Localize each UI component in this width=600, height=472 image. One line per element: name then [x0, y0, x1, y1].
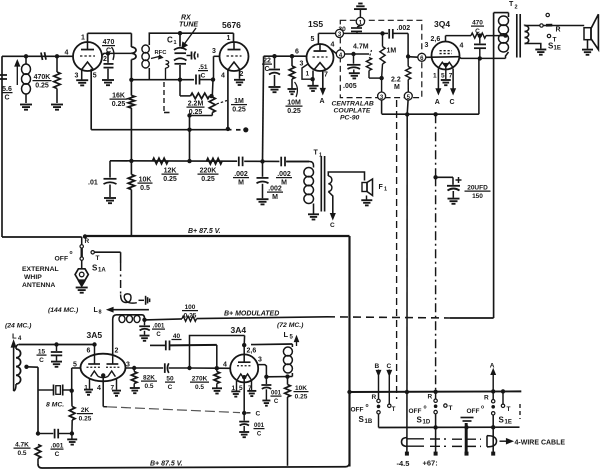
terminal battery: [465, 452, 469, 456]
wire 3Q4 screen stem: [445, 36, 447, 42]
svg-text:.002: .002: [397, 25, 411, 32]
node junction 22 cap: [272, 54, 276, 58]
svg-text:270K: 270K: [192, 376, 208, 383]
svg-text:3Q4: 3Q4: [434, 19, 450, 29]
wire long vertical B+ modulated: [493, 13, 495, 318]
svg-text:0.5: 0.5: [17, 450, 26, 457]
wire 1S5 pin4 to couplate 4: [330, 49, 336, 54]
coil L1 antenna: [25, 56, 27, 64]
node junction above terminal 3: [379, 76, 383, 80]
svg-text:(72 MC.): (72 MC.): [277, 322, 304, 329]
wire grid drive horizontal: [150, 344, 166, 346]
wire heavy vertical mid: [348, 236, 350, 467]
wire V2 plate stem: [233, 33, 235, 42]
wire to 3A4 grid: [190, 367, 217, 369]
node junction 1S5 cathode: [310, 77, 314, 81]
node junction 3A5 filament tap: [101, 373, 105, 377]
tube 3A5 dual triode: [81, 354, 126, 382]
wire 3Q4 pin7 C: [452, 69, 454, 91]
svg-text:OFF: OFF: [55, 256, 69, 263]
svg-text:4: 4: [97, 385, 101, 392]
arrow L8 pickup: [108, 308, 114, 312]
node junction bottom x435: [433, 425, 437, 429]
node junction 1M return: [187, 113, 191, 117]
svg-text:M: M: [238, 179, 244, 186]
ground T2 secondary: [535, 49, 546, 51]
transformer T2 primary: [508, 13, 510, 17]
svg-text:1: 1: [384, 187, 387, 193]
wire B to S1B: [378, 376, 380, 400]
ground above terminal 1: [358, 3, 362, 5]
svg-text:T: T: [449, 405, 453, 412]
wire detector line y=130: [91, 129, 231, 131]
svg-text:100: 100: [185, 304, 196, 311]
svg-text:0.5: 0.5: [140, 185, 150, 192]
svg-text:RFC: RFC: [155, 50, 168, 56]
svg-text:(24 MC.): (24 MC.): [5, 323, 32, 330]
wire drive down to grid: [216, 345, 218, 368]
wire T S1E stem: [502, 391, 504, 404]
wire switch common bottom: [379, 426, 520, 428]
sideways ground antenna pickup: [139, 299, 145, 301]
wire B+ modulated solid: [197, 317, 328, 319]
ground 3Q4 filament: [441, 79, 451, 81]
svg-text:4.7K: 4.7K: [15, 442, 29, 449]
node junction 3A4 filament tap: [242, 375, 246, 379]
resistor 10K osc: [287, 377, 289, 385]
svg-text:50: 50: [166, 376, 174, 383]
svg-text:82K: 82K: [143, 375, 155, 382]
node junction antenna coil: [24, 54, 28, 58]
svg-text:A: A: [490, 363, 495, 370]
label 1M/0.25 with leader: [217, 101, 228, 105]
svg-text:T: T: [314, 150, 319, 157]
svg-text:4: 4: [460, 43, 464, 50]
wire 3Q4 plate line through: [426, 56, 459, 59]
svg-text:M: M: [394, 84, 400, 91]
cable wires dashes bottom: [408, 445, 425, 447]
ground 82K: [130, 387, 140, 389]
wire B+ 87.5V bus: [84, 235, 350, 237]
wire T2 secondary top to switch: [525, 25, 540, 27]
tank coil RFC: [148, 33, 150, 45]
svg-text:4: 4: [223, 362, 227, 369]
tuning arrow L5: [296, 340, 298, 347]
svg-text:T: T: [96, 255, 100, 262]
ground 10M: [288, 88, 297, 90]
svg-text:2,6: 2,6: [431, 36, 441, 43]
ground 2K: [71, 434, 73, 439]
capacitor .001/C 3A4: [265, 377, 267, 384]
svg-text:5: 5: [441, 73, 445, 80]
node junction 1M top: [380, 31, 384, 35]
wire 1S5 pin5 to couplate 3: [317, 33, 319, 44]
wire T1 secondary bottom C: [328, 192, 333, 215]
capacitor .51/C: [195, 75, 197, 85]
svg-text:o: o: [70, 250, 73, 256]
tube 3A4: [230, 354, 258, 382]
wire grid return to RC bus: [189, 116, 191, 162]
terminal 1 couplate: [356, 17, 364, 25]
svg-text:.01: .01: [88, 180, 98, 187]
node junction 470K: [55, 54, 59, 58]
wire to terminal 3 bottom: [381, 78, 383, 92]
cable wires dashes top: [408, 438, 425, 440]
capacitor screen bypass: [479, 36, 481, 44]
filament 3Q4: [439, 62, 453, 67]
arrow B down: [378, 370, 380, 372]
arrow RX tune: [184, 28, 196, 45]
svg-text:16K: 16K: [112, 93, 125, 100]
node junction plate wire: [478, 56, 482, 60]
node junction C line: [242, 411, 246, 415]
wire terminal5 supply vertical: [406, 100, 409, 115]
wire tank bottom bus: [131, 79, 194, 81]
coil L4: [16, 345, 19, 350]
svg-text:EXTERNAL: EXTERNAL: [22, 266, 59, 273]
wire grid top line: [19, 344, 95, 346]
wire plate node to terminal 6: [408, 56, 418, 59]
svg-text:1: 1: [306, 71, 310, 78]
svg-text:5: 5: [93, 73, 97, 80]
resistor 470K: [56, 56, 58, 72]
svg-text:470: 470: [472, 20, 483, 27]
node junction 15C: [54, 342, 58, 346]
svg-text:C: C: [106, 47, 111, 54]
svg-text:PC-90: PC-90: [340, 115, 359, 122]
wire antenna left vertical: [1, 56, 3, 237]
wire V1 pin3 to ground: [81, 69, 83, 80]
svg-text:4: 4: [65, 50, 69, 57]
ground 470pF: [102, 79, 114, 81]
svg-text:0.25: 0.25: [232, 106, 246, 113]
plates 3A5: [88, 363, 100, 365]
terminal cable 4: [491, 452, 495, 456]
svg-text:T: T: [507, 406, 511, 413]
wire 1M bottom: [211, 113, 213, 116]
cable lacing right: [487, 436, 497, 447]
tuning arrow L1: [16, 64, 18, 85]
wire 3A4 pin1 stem: [236, 381, 238, 391]
wire A down to S1E: [492, 374, 494, 399]
wire V1 pin2 to choke line: [102, 53, 132, 55]
ground .01: [104, 197, 116, 199]
ground V2 pin2: [234, 79, 245, 81]
switch S1E arm: [543, 25, 553, 27]
ground .001 3A4: [262, 400, 270, 402]
svg-text:1M: 1M: [387, 48, 397, 55]
node junction 10M: [290, 54, 294, 58]
wire B+ modulated dashed: [327, 317, 450, 318]
node junction feed x503: [501, 389, 505, 393]
node junction 2K bottom: [70, 431, 74, 435]
wire 1S5 grid line: [264, 55, 307, 57]
contact T S1A: [91, 251, 94, 254]
ground 22/C: [269, 86, 281, 88]
svg-text:8: 8: [99, 310, 102, 316]
contact lower S1A: [80, 257, 83, 260]
filament center tap 3Q4: [444, 64, 447, 68]
svg-text:C: C: [156, 332, 161, 338]
pigtail loop to L8: [121, 294, 137, 303]
svg-text:0.25: 0.25: [201, 176, 215, 183]
svg-text:C: C: [256, 411, 261, 418]
svg-text:1: 1: [433, 73, 437, 80]
terminal -4.5: [405, 452, 409, 456]
svg-text:.002: .002: [277, 171, 291, 178]
svg-text:5.6: 5.6: [2, 86, 12, 93]
wire RC bus y=161: [110, 160, 194, 162]
svg-text:C: C: [4, 94, 9, 101]
crystal 8MC: [38, 389, 54, 391]
wire antenna input horizontal y=56: [2, 55, 73, 57]
wire 3A5 pin6 stem: [94, 345, 96, 365]
svg-text:1D: 1D: [423, 420, 431, 426]
arrow and label C filament: [247, 412, 251, 414]
svg-text:10K: 10K: [295, 385, 307, 392]
resistor 2.2M couplate: [407, 57, 409, 67]
svg-text:R: R: [428, 394, 433, 401]
node junction feed x407: [405, 390, 409, 394]
svg-text:C: C: [387, 363, 392, 370]
terminal +67: [434, 452, 438, 456]
node junction bottom x493: [491, 425, 495, 429]
wire V2 pin4 down to detector line: [227, 70, 229, 129]
node junction L5 bottom: [285, 374, 289, 378]
label 10M/0.25 with leader: [295, 82, 298, 97]
svg-text:C: C: [257, 431, 262, 437]
capacitor 470/C bypass: [107, 53, 109, 62]
node junction bus x262: [260, 159, 264, 163]
resistor 1M: [209, 97, 215, 113]
resistor 82K: [133, 368, 135, 372]
svg-text:C: C: [264, 66, 269, 73]
svg-text:8 MC.: 8 MC.: [46, 402, 64, 409]
svg-text:470K: 470K: [34, 74, 51, 81]
wire 3A4 pin7 stem: [251, 380, 253, 390]
svg-text:1B: 1B: [365, 419, 373, 425]
wire 22/C riser: [263, 56, 264, 161]
contact R S1E: [546, 13, 549, 16]
wire V2 grid pin3: [214, 55, 220, 57]
switch S1E bottom contacts: [492, 400, 495, 403]
ground 20uFD: [448, 198, 460, 200]
svg-text:OFF: OFF: [409, 408, 422, 415]
wire C to S1B T contact: [388, 376, 390, 405]
resistor 2K: [71, 391, 73, 407]
wire 3A5 pin7 stem: [116, 379, 118, 390]
svg-text:1: 1: [81, 35, 85, 42]
svg-text:3: 3: [75, 73, 79, 80]
wire .002 to plate node: [393, 32, 408, 34]
ground 15/C: [51, 361, 62, 363]
node junction grid V2: [211, 77, 215, 81]
capacitor 40: [165, 341, 167, 351]
svg-text:0.25: 0.25: [184, 312, 197, 319]
capacitor .002/M series first: [238, 157, 240, 167]
node junction feed x435: [433, 390, 437, 394]
capacitor .002 couplate: [388, 29, 390, 39]
ground .001 L8: [140, 335, 150, 337]
ground 270K: [212, 387, 222, 389]
terminal 5 couplate bottom: [404, 92, 412, 100]
wire antenna feed to S1A: [2, 236, 82, 238]
svg-text:4-WIRE CABLE: 4-WIRE CABLE: [515, 440, 566, 447]
wire T2 secondary bottom to ground: [525, 44, 541, 49]
ground 3A5 pin7: [112, 390, 121, 392]
cable end dashes: [519, 404, 521, 419]
variable capacitor C1: [179, 33, 181, 46]
svg-text:12K: 12K: [164, 168, 177, 175]
svg-text:T: T: [509, 1, 514, 8]
node junction supply cross: [405, 112, 409, 116]
svg-text:1: 1: [174, 40, 177, 46]
speaker driver: [584, 28, 591, 40]
wire 1S5 pin7 filament A: [322, 71, 324, 90]
terminal 6 couplate: [418, 53, 426, 61]
svg-text:7: 7: [324, 72, 328, 79]
node junction feedback net: [187, 366, 191, 370]
transformer T2 core: [516, 14, 518, 58]
capacitor series on antenna wire: [41, 53, 43, 61]
tube V2 5676: [220, 42, 249, 71]
wire couplate3 feed down: [381, 100, 383, 114]
ground 3A4 pin1: [231, 390, 240, 392]
wire S1D arm down: [435, 414, 437, 454]
node junction C1 bottom: [178, 78, 182, 82]
node junction screen bypass: [478, 33, 482, 37]
ground speaker: [582, 49, 593, 51]
svg-text:3: 3: [300, 61, 304, 68]
svg-text:5676: 5676: [222, 20, 241, 30]
dashed tuning link from tank: [163, 82, 165, 113]
svg-text:+67:: +67:: [423, 459, 438, 468]
plus sign 20uFD: [456, 179, 462, 181]
node junction x189 RC bus: [187, 159, 191, 163]
node junction feed x493: [491, 389, 495, 393]
wire S1A T to transmitter: [94, 251, 120, 253]
wire grid network vertical: [211, 80, 214, 97]
wire terminal4 grid line: [345, 53, 369, 55]
svg-text:R: R: [372, 394, 377, 401]
node junction feed x350: [347, 390, 351, 394]
wire feedback into plate node: [243, 336, 245, 346]
capacitor 15/C: [56, 345, 58, 352]
wire dash-dot T feed: [120, 263, 122, 295]
antenna jack: [75, 269, 88, 280]
svg-text:B+ 87.5 V.: B+ 87.5 V.: [150, 461, 183, 468]
svg-text:C: C: [168, 384, 173, 391]
grid dashes 3Q4: [440, 50, 453, 52]
svg-text:OFF: OFF: [467, 408, 480, 415]
node junction C1 top: [178, 31, 182, 35]
capacitor .01 bypass: [109, 161, 111, 178]
tube V1 RF amplifier: [73, 42, 102, 71]
svg-text:TUNE: TUNE: [179, 22, 198, 29]
ground F1: [361, 199, 372, 201]
svg-text:M: M: [281, 179, 287, 186]
svg-text:L: L: [12, 332, 17, 341]
svg-text:RX: RX: [181, 15, 192, 22]
wire S1E arm down: [492, 415, 494, 454]
capacitor .002/M shunt: [262, 161, 264, 176]
filaments 3A5: [91, 371, 98, 377]
node junction bottom x466: [464, 425, 468, 429]
capacitor trimmer beside C1: [187, 55, 191, 57]
svg-text:20UFD: 20UFD: [467, 185, 488, 192]
ground 3A5 pin1: [84, 389, 93, 391]
svg-text:COUPLATE: COUPLATE: [334, 108, 371, 115]
node junction .005: [351, 52, 355, 56]
svg-text:1: 1: [227, 35, 231, 42]
wire T1 secondary top to F1: [328, 172, 364, 181]
ground .002 shunt: [257, 198, 269, 200]
resistor 1M couplate: [382, 33, 384, 46]
svg-text:2: 2: [115, 348, 119, 355]
svg-text:.001: .001: [51, 443, 64, 450]
arrow C down: [388, 370, 390, 372]
svg-text:A: A: [320, 98, 325, 105]
wire 1S5 pin3 return: [302, 64, 312, 79]
svg-text:o: o: [424, 405, 427, 411]
wire V1 plate to top rail: [87, 33, 89, 42]
node junction 10K top: [129, 159, 133, 163]
capacitor 5.6/C on antenna vertical: [0, 74, 7, 76]
svg-text:4: 4: [221, 73, 225, 80]
svg-text:B+ 87.5 V.: B+ 87.5 V.: [188, 228, 221, 235]
svg-text:4.7M: 4.7M: [353, 44, 369, 51]
slug arrow and small coil: [151, 57, 159, 59]
switch S1B contacts: [377, 399, 380, 402]
svg-text:10M: 10M: [287, 100, 301, 107]
svg-text:3: 3: [212, 48, 216, 55]
terminal 3 couplate bottom: [378, 92, 386, 100]
capacitor .001/C feedback: [38, 433, 53, 435]
wire S1A stem: [81, 237, 83, 245]
transformer T1 primary: [304, 168, 314, 177]
wire B+ modulated right: [450, 317, 494, 319]
wire C1 bottom to 2.2M: [179, 80, 181, 96]
node junction 2.2M right: [209, 94, 213, 98]
svg-text:OFF: OFF: [351, 407, 364, 414]
svg-text:R: R: [484, 395, 489, 402]
svg-text:1M: 1M: [234, 98, 244, 105]
wire dash-dot supply 67V: [435, 114, 437, 177]
coil L8: [117, 315, 145, 318]
svg-text:C: C: [39, 357, 44, 364]
resistor 12K on RC bus: [153, 158, 169, 164]
svg-text:470: 470: [103, 39, 115, 46]
wire 3A4 plate to L5 top: [251, 343, 292, 346]
contact T S1E bottom: [501, 404, 504, 407]
capacitor 20uFD electrolytic: [452, 177, 454, 185]
couplate dashed box: [340, 20, 422, 97]
svg-text:C: C: [201, 72, 206, 79]
wire B+ modulated: [145, 319, 183, 320]
ground L1: [20, 104, 32, 106]
node junction 3A4 plate: [242, 343, 246, 347]
svg-text:6: 6: [295, 49, 299, 56]
resistor 16K/0.25: [130, 80, 132, 96]
svg-text:(144 MC.): (144 MC.): [48, 307, 79, 314]
svg-text:F: F: [379, 184, 384, 191]
switch S1D contacts: [434, 399, 437, 402]
svg-text:.002: .002: [268, 186, 282, 193]
phone jack F1: [362, 183, 367, 192]
wire 3Q4 pin1 A: [437, 69, 439, 91]
wire L8 left down to 3A5 plate: [112, 320, 114, 357]
svg-text:R: R: [556, 27, 561, 34]
